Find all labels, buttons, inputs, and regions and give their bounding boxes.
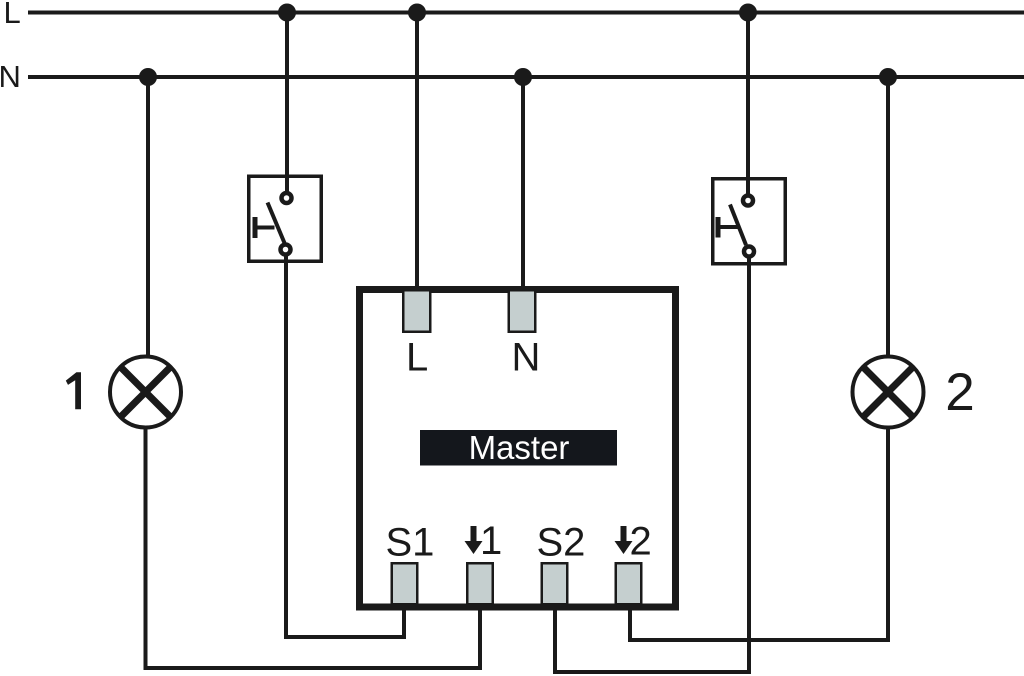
junction on N rail at lamp 1 drop [139, 68, 157, 86]
svg-text:2: 2 [630, 520, 652, 564]
svg-text:L: L [4, 0, 21, 30]
arrow of output 2 label [615, 526, 633, 554]
terminal S2 [542, 563, 568, 604]
lamp 1 [110, 357, 181, 428]
terminal L [403, 290, 430, 332]
svg-text:N: N [0, 59, 21, 94]
junction on N rail at lamp 2 drop [879, 68, 897, 86]
svg-text:S2: S2 [537, 521, 586, 565]
label lamp 1 [66, 372, 81, 409]
wire L rail to switch S2 [746, 13, 750, 199]
terminal arrow-2 [616, 563, 642, 604]
junction on N rail at master N drop [514, 68, 532, 86]
junction on L rail at master L drop [408, 4, 426, 22]
terminal arrow-1 [467, 563, 493, 604]
junction on L rail at switch S1 drop [278, 4, 296, 22]
master nameplate [420, 430, 617, 466]
svg-text:Master: Master [469, 429, 570, 466]
wire N rail to master N terminal [521, 77, 525, 296]
svg-text:N: N [512, 336, 541, 380]
terminal S1 [392, 563, 418, 604]
wire L rail [28, 11, 1024, 15]
wire N rail [28, 75, 1024, 79]
wire L rail to switch S1 [285, 13, 289, 197]
junction on L rail at switch S2 drop [739, 4, 757, 22]
push-button switch 2 [713, 179, 786, 264]
master device box U1 [360, 290, 676, 608]
push-button switch 1 [249, 176, 322, 261]
wire N rail to lamp 2 [886, 77, 890, 370]
svg-text:S1: S1 [386, 521, 435, 565]
wire switch S1 to master S1 terminal [286, 256, 404, 637]
wire L rail to master L terminal [415, 13, 419, 297]
lamp 2 [853, 357, 924, 428]
terminal N [509, 290, 536, 332]
wire switch S2 to master S2 terminal [555, 258, 749, 672]
wire master output 1 to lamp 1 [146, 420, 481, 668]
svg-text:2: 2 [945, 363, 974, 422]
svg-text:1: 1 [480, 519, 502, 563]
wire N rail to lamp 1 [146, 77, 150, 370]
svg-text:L: L [406, 336, 428, 380]
wire master output 2 to lamp 2 [630, 420, 888, 640]
arrow of output 1 label [465, 526, 483, 554]
